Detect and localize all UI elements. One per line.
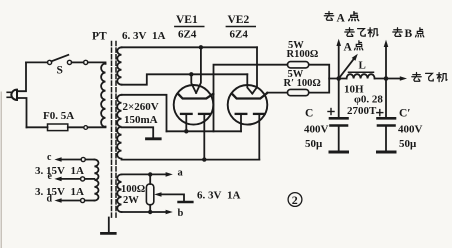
fraction line VE2 — [226, 26, 255, 28]
tube VE2 plate bar left — [236, 113, 247, 115]
svg-text:R100Ω: R100Ω — [287, 49, 319, 60]
svg-text:C: C — [305, 108, 313, 120]
tube VE1 plate right leg — [203, 114, 205, 160]
capacitor C plus — [328, 109, 334, 115]
svg-text:400V: 400V — [304, 124, 329, 136]
wire to fuse — [27, 126, 48, 128]
wire VE1 filament right lead — [196, 47, 201, 93]
tube VE1 envelope — [174, 85, 214, 125]
fuse F0.5A — [48, 124, 68, 131]
circled number 2 — [288, 193, 302, 207]
svg-text:2W: 2W — [123, 195, 139, 206]
label qu A dian (top) — [324, 12, 358, 25]
ground (HV center tap) — [147, 137, 161, 140]
wire plug to switch — [17, 62, 26, 91]
svg-text:2: 2 — [292, 193, 298, 207]
plug P — [7, 90, 17, 100]
label qu B dian — [393, 28, 424, 40]
capacitor C' plates — [378, 118, 396, 125]
capacitor C lead — [338, 79, 340, 118]
tube VE2 plate right leg — [258, 114, 260, 160]
arrow right (qu yi ji) — [400, 76, 407, 81]
capacitor C' lead — [385, 79, 387, 118]
capacitor C bottom lead — [338, 127, 340, 151]
svg-text:2700T: 2700T — [347, 105, 377, 117]
wire to switch contact — [26, 61, 47, 63]
svg-text:6. 3V 1A: 6. 3V 1A — [122, 30, 165, 42]
svg-text:φ0. 28: φ0. 28 — [354, 94, 383, 106]
potentiometer 100ohm 2W body — [146, 184, 153, 205]
pot bottom lead — [149, 205, 151, 212]
wire W3 top lead to a — [122, 173, 167, 175]
secondary winding W2 (2x260V 150mA) — [117, 95, 121, 159]
svg-text:A: A — [344, 42, 353, 54]
node dot VE1 plate left on bus — [184, 129, 188, 133]
switch S — [48, 55, 88, 65]
svg-text:e: e — [48, 171, 53, 182]
core ground — [102, 218, 116, 234]
pot wiper arrow — [154, 192, 184, 201]
svg-text:400V: 400V — [398, 124, 423, 136]
tube VE2 cathode bar — [233, 93, 267, 99]
wire VE1 filament left lead — [191, 74, 196, 93]
node B dot — [384, 76, 389, 81]
svg-text:100Ω: 100Ω — [121, 184, 145, 195]
svg-text:b: b — [178, 208, 184, 219]
tube VE1 plate bar left — [181, 113, 192, 115]
ground (C') — [378, 151, 396, 154]
lead c — [54, 157, 94, 162]
wire W1 top lead (filament bus 1) — [122, 46, 258, 48]
terminal circle — [84, 126, 88, 130]
transformer primary winding — [101, 64, 105, 127]
tube VE2 plate left leg — [240, 114, 242, 131]
wire terminal to primary — [88, 126, 106, 129]
node dot VE1 filament left — [189, 72, 193, 76]
wire plate bus (wire4) — [167, 130, 242, 132]
wire VE1 cathode output (to R) — [214, 65, 288, 132]
svg-text:6. 3V 1A: 6. 3V 1A — [197, 190, 240, 202]
wire VE2 filament left lead — [247, 74, 252, 93]
svg-text:150mA: 150mA — [124, 114, 158, 126]
svg-text:A: A — [337, 12, 346, 24]
svg-text:F0. 5A: F0. 5A — [43, 110, 74, 122]
wire HV bottom bus (wire5) — [122, 159, 260, 161]
svg-text:R′ 100Ω: R′ 100Ω — [284, 78, 321, 89]
secondary winding W3 (6.3V 1A bottom) — [117, 174, 121, 212]
lead e — [54, 177, 94, 182]
label A dian (diagonal arrow target) — [344, 41, 363, 54]
wire W2 top lead (HV phase to plates bus) — [122, 95, 167, 132]
svg-text:L: L — [359, 60, 366, 72]
fraction line VE1 — [175, 26, 204, 28]
resistor R 100ohm 5W — [287, 62, 308, 68]
wire fuse to terminal — [68, 126, 84, 128]
arrow a — [166, 172, 173, 177]
node A dot — [336, 76, 341, 81]
wire W3 bottom lead to b — [122, 211, 167, 213]
wire VE2 filament right lead — [252, 47, 257, 93]
wire switch to transformer primary — [88, 62, 106, 63]
svg-text:3. 15V 1A: 3. 15V 1A — [35, 186, 84, 198]
ground (C) — [330, 151, 348, 154]
scan edge artifact — [0, 92, 2, 248]
tube VE1 plate bar right — [199, 113, 210, 115]
svg-text:50μ: 50μ — [399, 138, 417, 150]
svg-text:6Z4: 6Z4 — [230, 29, 249, 41]
svg-text:d: d — [47, 194, 53, 205]
svg-text:a: a — [178, 168, 184, 179]
secondary winding W1 (6.3V 1A heater) — [117, 47, 121, 84]
node dot pot top — [148, 172, 152, 176]
svg-text:c: c — [47, 152, 52, 163]
svg-text:C′: C′ — [399, 108, 411, 120]
tube VE1 plate left leg — [185, 114, 187, 131]
wire plug to fuse — [17, 98, 27, 127]
node dot VE1 plate right on bus — [202, 157, 206, 161]
tube VE2 plate bar right — [254, 113, 265, 115]
capacitor C' bottom lead — [385, 127, 387, 151]
capacitor C' plus — [377, 110, 383, 116]
node dot VE1 filament right — [199, 45, 203, 49]
wire W2 center tap to ground — [122, 127, 154, 138]
pot top lead — [149, 174, 151, 184]
label qu yi ji (above node A) — [345, 28, 378, 37]
resistor R' 100ohm 5W — [287, 89, 308, 95]
svg-text:S: S — [57, 65, 63, 77]
winding W4 (3.15V+3.15V) — [94, 160, 98, 201]
ground (wiper) — [179, 201, 193, 204]
choke core line — [349, 71, 374, 73]
wire filter output junction — [329, 78, 346, 80]
tube VE2 envelope — [228, 85, 268, 125]
svg-text:PT: PT — [92, 31, 107, 43]
label qu yi ji (right output) — [412, 73, 447, 82]
choke L winding — [347, 74, 375, 78]
wire choke to output arrow — [375, 78, 401, 80]
arrow diagonal to A dian — [339, 54, 358, 79]
node dot pot bottom — [148, 210, 152, 214]
arrow up (qu B dian) from node B — [384, 40, 389, 79]
arrow up (qu yi ji) from node A — [336, 39, 341, 79]
svg-text:50μ: 50μ — [305, 138, 323, 150]
wire R right lead — [309, 65, 329, 93]
svg-text:6Z4: 6Z4 — [178, 29, 197, 41]
svg-text:2×260V: 2×260V — [123, 101, 159, 113]
svg-text:3. 15V 1A: 3. 15V 1A — [35, 165, 84, 177]
svg-text:VE2: VE2 — [228, 14, 250, 26]
transformer core dashed lines — [111, 42, 113, 218]
svg-text:VE1: VE1 — [176, 14, 198, 26]
capacitor C plates — [330, 118, 348, 125]
svg-text:B: B — [405, 28, 413, 40]
wire W1 bottom lead step (filament bus 2) — [122, 74, 248, 84]
arrow b — [166, 210, 173, 215]
tube VE1 cathode bar — [179, 94, 213, 99]
lead d — [54, 198, 94, 203]
wire VE2 cathode output (to R') — [267, 92, 287, 94]
